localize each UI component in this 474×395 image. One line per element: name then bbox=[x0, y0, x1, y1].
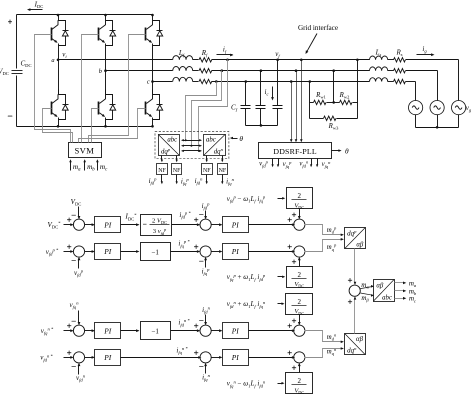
svg-text:+: + bbox=[194, 347, 199, 357]
svg-text:PI: PI bbox=[103, 247, 112, 256]
svg-text:2: 2 bbox=[298, 192, 302, 200]
svg-text:2: 2 bbox=[298, 377, 302, 385]
svg-text:θ: θ bbox=[345, 147, 349, 156]
svg-text:NF: NF bbox=[158, 168, 166, 174]
svg-text:PI: PI bbox=[103, 326, 112, 335]
svg-text:abc: abc bbox=[167, 137, 177, 144]
svg-text:−: − bbox=[71, 361, 76, 371]
svg-text:+: + bbox=[67, 241, 72, 251]
svg-text:+: + bbox=[194, 241, 199, 251]
svg-text:Grid interface: Grid interface bbox=[298, 24, 338, 32]
svg-text:DDSRF-PLL: DDSRF-PLL bbox=[273, 147, 316, 156]
svg-text:−: − bbox=[199, 209, 204, 219]
svg-text:a: a bbox=[51, 57, 54, 64]
svg-text:−: − bbox=[71, 255, 76, 265]
svg-text:PI: PI bbox=[103, 220, 112, 229]
svg-text:+: + bbox=[287, 241, 292, 251]
svg-text:PI: PI bbox=[231, 220, 240, 229]
svg-text:αβ: αβ bbox=[356, 241, 364, 248]
svg-text:+: + bbox=[292, 362, 297, 372]
svg-text:−: − bbox=[71, 316, 76, 326]
svg-text:PI: PI bbox=[231, 326, 240, 335]
svg-text:+: + bbox=[348, 297, 353, 307]
svg-text:αβ: αβ bbox=[376, 282, 384, 289]
svg-text:NF: NF bbox=[219, 168, 227, 174]
svg-text:abc: abc bbox=[206, 137, 216, 144]
svg-text:2: 2 bbox=[298, 271, 302, 279]
svg-text:PI: PI bbox=[103, 353, 112, 362]
svg-text:abc: abc bbox=[382, 295, 392, 302]
svg-text:−1: −1 bbox=[151, 249, 159, 257]
svg-text:+: + bbox=[292, 256, 297, 266]
svg-text:θ: θ bbox=[239, 134, 243, 143]
svg-text:+: + bbox=[194, 321, 199, 331]
svg-text:2: 2 bbox=[298, 298, 302, 306]
svg-text:+: + bbox=[292, 316, 297, 326]
svg-text:−: − bbox=[199, 362, 204, 372]
svg-text:+: + bbox=[8, 18, 13, 27]
svg-text:+: + bbox=[292, 210, 297, 220]
svg-text:−: − bbox=[199, 256, 204, 266]
svg-text:−: − bbox=[199, 315, 204, 325]
svg-text:PI: PI bbox=[231, 247, 240, 256]
svg-text:−: − bbox=[143, 221, 147, 229]
svg-text:NF: NF bbox=[203, 168, 211, 174]
svg-text:c: c bbox=[147, 79, 150, 86]
svg-text:b: b bbox=[99, 68, 102, 75]
svg-text:+: + bbox=[287, 347, 292, 357]
svg-text:−: − bbox=[7, 111, 12, 121]
svg-text:PI: PI bbox=[231, 353, 240, 362]
svg-text:αβ: αβ bbox=[356, 336, 364, 343]
svg-text:NF: NF bbox=[173, 168, 181, 174]
svg-text:+: + bbox=[67, 347, 72, 357]
svg-text:−1: −1 bbox=[151, 328, 159, 336]
svg-text:+: + bbox=[194, 215, 199, 225]
svg-text:SVM: SVM bbox=[74, 146, 94, 156]
svg-text:+: + bbox=[348, 275, 353, 285]
svg-text:−: − bbox=[71, 210, 76, 220]
